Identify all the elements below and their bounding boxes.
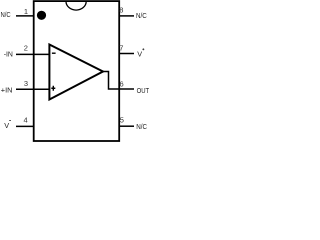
IC body xyxy=(34,1,120,141)
svg-text:6: 6 xyxy=(120,79,124,88)
svg-text:+IN: +IN xyxy=(1,85,13,94)
svg-text:1: 1 xyxy=(24,7,28,16)
wire pin 3 (to non-inverting input) xyxy=(16,88,49,90)
pin-1 indicator dot xyxy=(37,11,46,20)
non-inverting input marker + xyxy=(51,86,55,91)
wire pin 7 xyxy=(119,53,134,55)
svg-text:4: 4 xyxy=(24,115,28,124)
svg-text:2: 2 xyxy=(24,44,28,53)
wire pin 2 (to inverting input) xyxy=(16,53,49,55)
wire pin 6 / output from op-amp apex xyxy=(103,72,134,90)
svg-text:7: 7 xyxy=(119,44,123,53)
svg-text:N/C: N/C xyxy=(136,122,147,131)
op-amp A1 triangle xyxy=(49,45,103,100)
svg-text:V: V xyxy=(137,49,142,58)
svg-text:-IN: -IN xyxy=(4,50,13,59)
svg-text:8: 8 xyxy=(119,5,123,14)
svg-text:N/C: N/C xyxy=(1,10,11,19)
wire pin 8 xyxy=(119,15,134,17)
inverting input marker - xyxy=(52,53,56,54)
wire pin 4 xyxy=(16,125,35,127)
svg-text:5: 5 xyxy=(120,115,124,124)
wire pin 5 xyxy=(119,125,134,127)
wire pin 1 xyxy=(16,15,35,17)
svg-text:OUT: OUT xyxy=(137,86,150,95)
svg-text:N/C: N/C xyxy=(136,11,147,20)
svg-text:V: V xyxy=(4,121,9,130)
svg-text:3: 3 xyxy=(24,79,28,88)
notch (pin-1 end index) xyxy=(66,1,86,10)
